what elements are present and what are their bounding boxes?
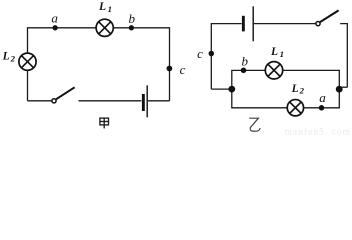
wire <box>148 100 170 102</box>
switch S <box>52 87 75 103</box>
node junction left <box>228 86 235 93</box>
wire <box>210 23 212 89</box>
node junction right <box>336 86 343 93</box>
svg-text:c: c <box>197 46 203 61</box>
svg-text:L2: L2 <box>2 50 16 63</box>
node b <box>241 68 247 74</box>
lamp L1 <box>265 62 282 79</box>
wire <box>28 100 52 102</box>
svg-text:L1: L1 <box>98 1 112 14</box>
switch S <box>316 10 339 25</box>
node a <box>319 105 325 111</box>
wire <box>169 27 171 101</box>
node b <box>129 25 134 30</box>
lamp L2 <box>19 53 36 70</box>
lamp L1 <box>96 19 113 36</box>
wire <box>346 23 348 87</box>
wire <box>211 88 232 90</box>
node a <box>52 25 57 30</box>
label JIA <box>100 118 109 128</box>
wire <box>27 27 29 101</box>
lamp L2 <box>287 100 303 116</box>
wire <box>28 27 170 29</box>
svg-text:b: b <box>129 11 136 26</box>
wire <box>232 89 339 108</box>
wire <box>79 100 142 102</box>
svg-text:manfen5. com: manfen5. com <box>285 127 351 136</box>
node c <box>209 51 215 57</box>
wire <box>232 70 339 89</box>
svg-text:L1: L1 <box>270 46 284 59</box>
svg-text:b: b <box>242 53 249 68</box>
battery <box>142 85 147 117</box>
node c <box>167 66 173 72</box>
battery <box>242 6 253 41</box>
svg-text:L2: L2 <box>291 83 305 95</box>
label YI <box>249 118 260 131</box>
wire <box>254 23 316 25</box>
wire <box>339 86 347 88</box>
svg-text:a: a <box>319 90 326 105</box>
wire <box>211 23 241 25</box>
svg-text:c: c <box>180 62 186 77</box>
wire <box>340 23 347 25</box>
svg-text:a: a <box>51 11 58 26</box>
